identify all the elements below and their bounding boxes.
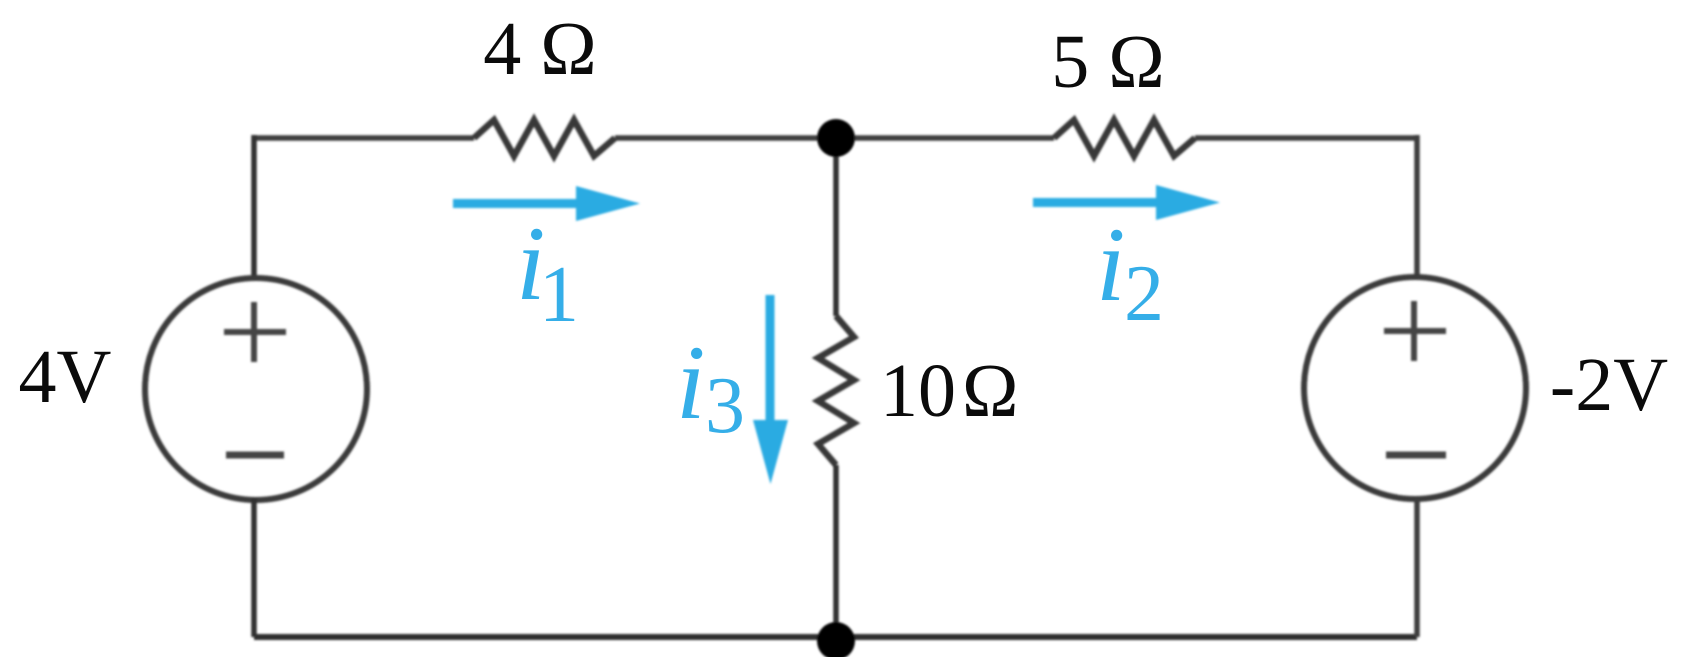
- resistor R1 4ohm zigzag: [474, 120, 615, 156]
- svg-text:i: i: [676, 324, 705, 441]
- current arrow i3: [753, 295, 788, 484]
- current arrow i1: [453, 186, 640, 221]
- svg-text:4 Ω: 4 Ω: [483, 7, 596, 91]
- label current i3: [676, 324, 745, 450]
- wire top-left horizontal: [254, 135, 474, 141]
- voltage source V1 circle: [145, 278, 367, 500]
- label current i2: [1096, 206, 1164, 338]
- svg-text:i: i: [1096, 206, 1125, 323]
- wire left vertical upper: [251, 135, 257, 280]
- wire right vertical lower: [1414, 498, 1420, 637]
- V1 minus sign: [226, 452, 284, 459]
- svg-text:1: 1: [539, 251, 579, 339]
- svg-text:Ω: Ω: [962, 349, 1018, 433]
- wire middle vertical upper: [833, 138, 839, 316]
- label current i1: [516, 205, 579, 339]
- resistor R3 10ohm zigzag: [818, 316, 854, 465]
- svg-text:5 Ω: 5 Ω: [1051, 20, 1164, 104]
- node A junction dot top: [817, 119, 855, 157]
- svg-text:-2V: -2V: [1550, 343, 1668, 427]
- svg-text:2: 2: [1124, 250, 1164, 338]
- voltage source V2 circle: [1304, 277, 1526, 499]
- svg-text:4V: 4V: [19, 335, 112, 419]
- wire middle vertical lower: [833, 465, 839, 640]
- svg-text:3: 3: [705, 362, 745, 450]
- V1 plus sign: [224, 302, 286, 362]
- V2 minus sign: [1386, 452, 1446, 459]
- svg-text:10: 10: [880, 349, 956, 433]
- wire top-right horizontal: [1195, 135, 1417, 141]
- wire right vertical upper: [1414, 135, 1420, 280]
- node B junction dot bottom: [817, 622, 855, 657]
- V2 plus sign: [1384, 301, 1446, 361]
- current arrow i2: [1033, 185, 1220, 220]
- wire top between node A and R2: [836, 135, 1054, 141]
- wire bottom horizontal: [254, 634, 1417, 640]
- resistor R2 5ohm zigzag: [1054, 120, 1195, 156]
- wire top-mid between R1 and node A: [615, 135, 836, 141]
- wire left vertical lower: [251, 498, 257, 637]
